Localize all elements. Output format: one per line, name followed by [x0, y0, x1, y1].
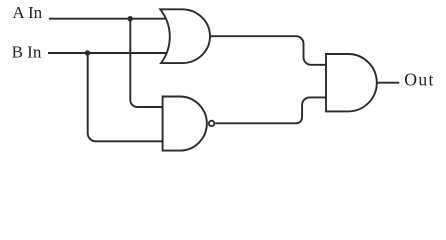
node junction dot on A wire [128, 16, 133, 21]
wire NAND gate U2 output to AND gate U3 bottom input [215, 97, 326, 123]
svg-text:A In: A In [12, 3, 42, 22]
svg-text:Out: Out [404, 69, 434, 89]
node junction dot on B wire [85, 50, 90, 55]
wire AND gate U3 output to Out [377, 82, 400, 84]
nand-gate U2 inversion bubble [209, 121, 214, 126]
wire A branch to NAND gate U2 top input [130, 19, 162, 107]
wire B input to OR gate U1 [48, 52, 167, 54]
wire A input to OR gate U1 [49, 18, 167, 20]
and-gate U3 [326, 54, 377, 111]
wire OR gate U1 output to AND gate U3 top input [210, 36, 326, 65]
nand-gate U2 body [163, 97, 207, 151]
svg-text:B In: B In [12, 43, 42, 62]
or-gate U1 [160, 9, 210, 63]
wire B branch to NAND gate U2 bottom input [88, 53, 163, 141]
